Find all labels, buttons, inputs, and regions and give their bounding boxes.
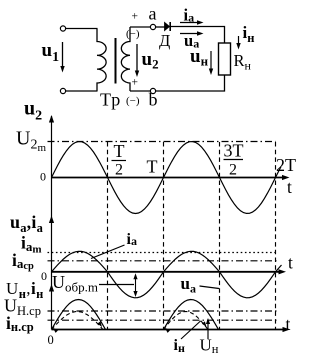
input terminal bottom [60,88,65,93]
node a [150,24,155,29]
iHcp level line [48,319,278,321]
svg-text:+: + [132,11,139,23]
svg-text:(−): (−) [126,95,140,107]
uH hump 1 [52,300,106,330]
wire diode to load corner [170,27,224,44]
svg-text:t: t [287,177,292,197]
ia hump 1 [52,251,108,271]
U2m level line [48,141,276,143]
iH dashed hump 2 [164,312,209,330]
node b [150,88,155,93]
wire node b to secondary [130,90,150,92]
svg-text:T: T [147,157,158,177]
svg-text:3T: 3T [224,141,244,161]
current arrow iH (circuit) [238,36,240,46]
gridline at 3T/2 [219,142,221,330]
svg-text:2T: 2T [276,155,296,175]
resistor RH [219,43,231,75]
svg-text:t: t [286,314,291,334]
svg-text:2: 2 [115,162,123,179]
svg-text:Д: Д [159,31,170,50]
voltage arrow u1 [62,42,64,69]
iH dashed hump 1 [52,312,104,330]
plot1 time axis [52,177,287,179]
ia hump 2 [164,251,220,271]
shared vertical axis [51,116,53,330]
voltage arrow ua (circuit) [180,33,200,35]
diode D [165,22,170,30]
svg-text:Тр: Тр [100,90,121,110]
iam level line [48,252,278,254]
wire primary bottom [66,90,98,92]
svg-text:0: 0 [40,170,46,184]
svg-text:(−): (−) [126,28,140,40]
UHcp level line [48,310,278,312]
svg-text:t: t [288,253,293,273]
plot3 time axis [52,329,287,331]
svg-text:+: + [132,77,139,89]
u2 sine wave [52,142,282,214]
transformer primary winding [97,29,106,92]
plot2 time axis [52,271,283,273]
gridline at T/2 [107,142,109,330]
ia hump 3 partial [276,265,282,272]
transformer core [115,38,117,84]
wire node a to diode [156,26,165,28]
voltage arrow u2 [136,44,138,74]
voltage arrow uH (circuit) [210,51,212,72]
wire secondary to node a [130,26,150,28]
wire load bottom [156,75,225,91]
svg-text:0: 0 [41,269,47,283]
wire primary top [66,28,98,30]
svg-text:0: 0 [48,333,54,347]
ua negative hump 1 [108,272,164,298]
ua negative hump 2 [220,272,276,298]
svg-text:a: a [149,4,157,24]
Uobr.m measure arrow [135,276,137,295]
gridline at 2T [275,142,277,330]
svg-text:2: 2 [229,162,237,179]
svg-text:T: T [114,141,125,161]
input terminal top [60,26,65,31]
svg-text:b: b [149,90,158,110]
gridline at T [163,142,165,330]
transformer secondary winding [121,27,130,91]
iacp level line [48,260,278,262]
uH hump 2 [164,300,219,330]
current arrow ia (circuit) [180,22,200,24]
svg-text:iа: iа [127,231,137,248]
